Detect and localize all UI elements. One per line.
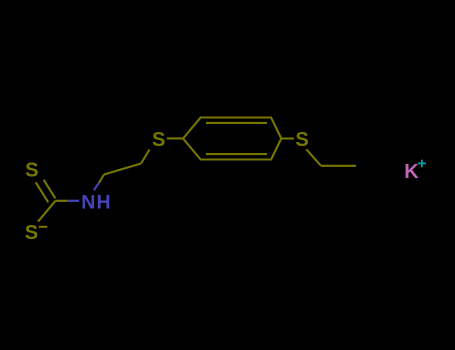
svg-text:S: S	[25, 159, 38, 181]
double bond C=S line B	[44, 180, 56, 199]
atom label NH	[81, 191, 111, 213]
bond C1 to C2	[104, 164, 141, 175]
ring inner double bond top	[206, 122, 267, 124]
bond S right to CH2	[306, 149, 321, 166]
atom label S (thione S=)	[25, 159, 38, 181]
svg-text:S: S	[25, 222, 38, 244]
svg-text:K: K	[404, 161, 419, 183]
bond C to N carbon half	[55, 200, 67, 202]
double bond C=S line A	[36, 182, 49, 202]
bond N to C1 nitrogen half	[94, 183, 99, 190]
svg-text:S: S	[152, 129, 165, 151]
atom label S- (thiolate)	[25, 222, 38, 244]
superscript plus charge vertical	[421, 160, 423, 168]
bond C to S-	[38, 201, 55, 222]
bond ring right vertex to S right	[281, 137, 294, 139]
svg-text:S: S	[295, 129, 308, 151]
bond C to N nitrogen half	[68, 200, 80, 202]
bond C2 to S chain	[141, 150, 150, 164]
ring inner double bond bottom	[206, 153, 267, 155]
superscript minus charge	[39, 226, 47, 228]
benzene ring outline	[183, 118, 281, 160]
superscript plus charge horizontal	[418, 162, 426, 164]
atom label S (chain thioether)	[152, 129, 165, 151]
svg-text:NH: NH	[81, 191, 111, 213]
atom label S (right thioether)	[295, 129, 308, 151]
ion label K	[404, 161, 419, 183]
bond N to C1 carbon half	[99, 175, 104, 183]
bond S to ring left vertex	[167, 137, 183, 139]
bond CH2 to CH3	[321, 165, 356, 167]
